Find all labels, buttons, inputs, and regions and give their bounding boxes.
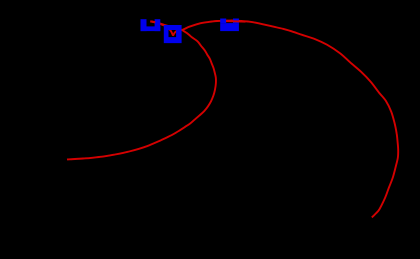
marker M2: blue square ring at cusp 2, centre hole shows the cusp — [164, 25, 182, 43]
wire: swallowtail curve, lower-left tail through hook and steep descent up to cusp 1 — [67, 21, 216, 159]
wire: red curve segment redrawn across marker M3 right prong — [226, 20, 246, 23]
marker M3: blue open-top square on the arc apex — [220, 19, 239, 32]
wire: cusp 1 dash visible in marker M1 notch — [150, 20, 155, 23]
wire: branch from cusp 2 through self-crossing, over apex, outer arc to bottom right — [173, 21, 398, 218]
marker M1: blue open-top square at cusp 1 — [141, 19, 161, 31]
wire: branch from cusp 1 down to cusp 2 (runs under marker M2) — [151, 21, 173, 35]
